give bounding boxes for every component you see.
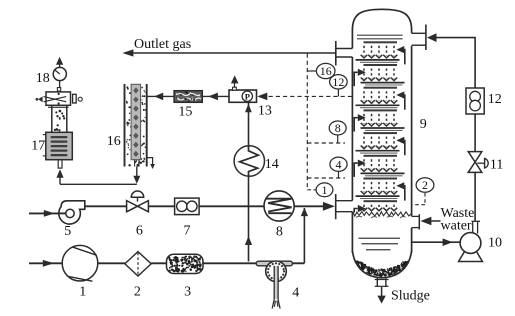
node sampling point 2: [424, 193, 426, 205]
column 9 sludge bed dots: [393, 268, 395, 270]
svg-text:4: 4: [336, 157, 342, 171]
svg-text:8: 8: [276, 225, 283, 240]
rotameter 12: [466, 88, 484, 114]
valve 11: [468, 152, 482, 162]
svg-text:11: 11: [490, 157, 503, 172]
column 9 spray stage 1: [364, 41, 398, 43]
wire - gas meter 7 to heater 8: [199, 205, 264, 207]
denuder 16 side drain: [147, 158, 153, 165]
svg-text:2: 2: [422, 178, 428, 192]
column 9 liquid level lines: [359, 237, 401, 239]
adsorber bed 3: [167, 254, 204, 273]
gas heater 14: [234, 146, 264, 176]
column 9 shell: [352, 9, 411, 48]
svg-text:4: 4: [292, 285, 299, 300]
column 9 spray stage 5: [364, 132, 398, 134]
svg-text:6: 6: [136, 223, 143, 238]
svg-text:13: 13: [258, 104, 272, 119]
gas meter 7: [175, 198, 200, 215]
svg-text:12: 12: [332, 75, 344, 89]
wire - return line from rotameter 12 to column top: [435, 38, 476, 88]
svg-text:14: 14: [265, 157, 279, 172]
wire - denuder 16 bottom outlet down-left to impinger 17: [136, 167, 138, 178]
wire - dashed tap line at tray 12 level to gauge 13: [260, 95, 353, 97]
wire - dashed pressure tap into 13: [257, 93, 267, 101]
svg-text:2: 2: [134, 284, 141, 299]
svg-text:7: 7: [184, 223, 191, 238]
svg-text:3: 3: [184, 284, 191, 299]
wire - 17 to sampling pump 18: [59, 81, 61, 88]
wire - 15 to denuder column 16: [148, 95, 175, 97]
wire - adsorber 3 to humidifier 4 and riser junction: [202, 262, 256, 264]
svg-text:15: 15: [178, 105, 192, 120]
node sampling point 8: [337, 135, 339, 143]
column 9 spray stage 7: [364, 178, 398, 180]
denuder column 16: [129, 112, 130, 113]
pump 10: [460, 233, 481, 254]
wire - valve 6 to gas meter 7: [148, 205, 175, 207]
waste water inlet nozzle: [418, 214, 420, 229]
wire - blower 5 to valve 6: [85, 205, 127, 207]
svg-text:Sludge: Sludge: [391, 288, 430, 303]
gas heater 8: [264, 191, 294, 221]
filter F 2: [125, 252, 151, 276]
wire - inlet air to blower 5: [29, 212, 66, 214]
svg-text:1: 1: [322, 183, 328, 197]
node sampling point 12: [337, 89, 339, 96]
svg-text:Outlet gas: Outlet gas: [134, 37, 191, 52]
wire - dashed sampling manifold vertical: [306, 54, 308, 191]
wire - pump 10 discharge to valve 11: [474, 172, 476, 221]
column 9 spray stage 2: [364, 64, 398, 66]
svg-text:P: P: [245, 91, 250, 101]
node sampling point 4: [338, 172, 340, 178]
column inlet nozzle flange: [335, 194, 337, 219]
svg-text:10: 10: [488, 235, 502, 250]
svg-text:water: water: [441, 219, 472, 234]
column 9 spray stage 6: [364, 155, 398, 157]
compressor 1: [62, 245, 98, 281]
sludge outlet nozzle: [376, 278, 378, 287]
humidifier bubbler 4: [256, 261, 292, 266]
wire - feed air line into compressor 1: [29, 262, 62, 264]
column 9 spray stage 4: [364, 109, 398, 111]
adsorbent tube 15: [174, 91, 202, 103]
svg-text:9: 9: [420, 117, 427, 132]
wire - filter 2 to adsorber 3: [151, 262, 167, 264]
wire - outlet gas line from column top: [130, 52, 336, 54]
blower 5: [59, 201, 85, 224]
wire - column bottom to pump 10 suction: [412, 241, 461, 243]
pump 10 suction flange: [472, 220, 481, 222]
wire - heater 8 to absorption column 9 inlet: [294, 205, 324, 207]
wire - valve 11 to rotameter 12: [474, 114, 476, 152]
column 9 spray stage 8: [364, 200, 398, 202]
svg-text:12: 12: [488, 92, 502, 107]
wire - riser from bottom line to heater 14 / pump 13: [248, 207, 250, 262]
column outlet nozzle flange: [335, 41, 337, 66]
wire - sludge drain arrow: [381, 287, 383, 296]
node sampling point 1: [307, 189, 317, 191]
pump with pressure gauge 13: [229, 90, 257, 102]
wire - dashed tap line at tray 8 level: [307, 142, 345, 144]
svg-text:17: 17: [31, 139, 45, 154]
wire - compressor 1 to filter 2: [98, 262, 125, 264]
column 9 liquid surface wavy line: [353, 212, 412, 217]
svg-text:16: 16: [320, 64, 332, 78]
sampling pump 18: [53, 67, 66, 80]
column top return nozzle flange: [425, 25, 427, 51]
svg-text:5: 5: [64, 224, 71, 239]
absorption column 9 internals - demister: [357, 34, 403, 36]
svg-text:18: 18: [36, 71, 50, 86]
svg-text:1: 1: [79, 285, 86, 300]
wire - humidifier 4 outlet riser to main line: [293, 262, 305, 264]
control valve 6: [127, 201, 138, 212]
node sampling point 16: [307, 70, 317, 72]
wire - dashed tap line at tray 4 level: [307, 177, 345, 179]
svg-text:16: 16: [107, 134, 121, 149]
column 9 spray stage 3: [364, 87, 398, 89]
wire - 13 to adsorbent tube 15: [202, 95, 229, 97]
svg-text:8: 8: [335, 121, 341, 135]
impinger absorber 17: [58, 160, 62, 168]
